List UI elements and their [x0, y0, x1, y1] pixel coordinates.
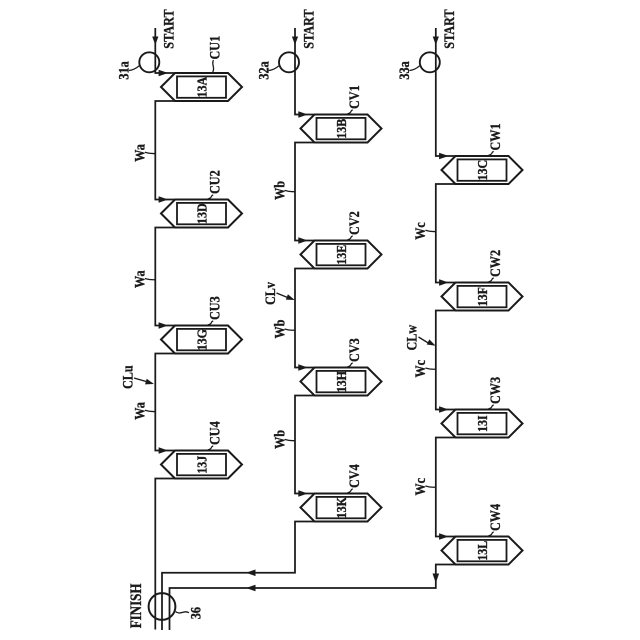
svg-text:CLu: CLu: [120, 365, 136, 389]
svg-text:13B: 13B: [333, 118, 349, 138]
svg-text:CW1: CW1: [487, 123, 503, 150]
svg-text:CW3: CW3: [487, 377, 503, 404]
svg-text:START: START: [300, 9, 316, 48]
svg-text:CV3: CV3: [346, 338, 362, 362]
svg-text:CU3: CU3: [207, 296, 223, 320]
svg-text:CU4: CU4: [207, 421, 223, 445]
svg-text:CLw: CLw: [403, 324, 419, 350]
svg-text:13A: 13A: [193, 76, 209, 97]
svg-text:13D: 13D: [193, 203, 209, 224]
svg-text:13C: 13C: [474, 160, 490, 181]
svg-text:CV1: CV1: [346, 85, 362, 109]
svg-text:CW4: CW4: [487, 504, 503, 531]
svg-text:13H: 13H: [333, 371, 349, 392]
svg-text:13E: 13E: [333, 244, 349, 264]
svg-text:FINISH: FINISH: [128, 584, 145, 629]
svg-text:13F: 13F: [474, 287, 490, 306]
svg-text:13K: 13K: [333, 496, 349, 518]
svg-text:CU1: CU1: [207, 36, 223, 60]
svg-text:START: START: [441, 9, 457, 48]
svg-text:CW2: CW2: [487, 250, 503, 277]
svg-text:START: START: [161, 9, 177, 48]
svg-text:CV4: CV4: [346, 464, 362, 488]
svg-text:13G: 13G: [193, 329, 209, 350]
svg-text:13I: 13I: [474, 415, 490, 432]
svg-text:36: 36: [187, 607, 203, 619]
svg-text:CLv: CLv: [262, 282, 278, 305]
svg-text:13L: 13L: [474, 540, 490, 560]
svg-text:CU2: CU2: [207, 170, 223, 194]
svg-text:13J: 13J: [193, 455, 209, 473]
svg-text:CV2: CV2: [346, 211, 362, 235]
